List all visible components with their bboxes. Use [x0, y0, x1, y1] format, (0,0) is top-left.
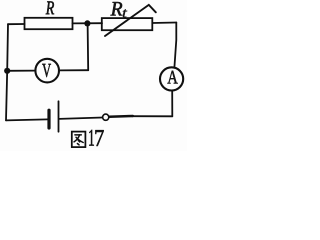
arrow of variable resistor Rt	[105, 5, 156, 36]
label R of resistor R1	[46, 2, 54, 15]
caption numeral 7	[95, 130, 103, 146]
resistor R1 (R) body	[25, 18, 73, 29]
caption character 图 drawn as strokes	[72, 132, 86, 148]
wire Rt to top-right corner	[152, 22, 176, 25]
wire ammeter to bottom-right corner	[171, 91, 173, 117]
node junction left	[4, 68, 10, 74]
wire R to Rt	[73, 22, 103, 24]
wire bottom right section	[133, 115, 173, 117]
wire top-left to R	[8, 23, 25, 25]
ammeter A1 circle	[160, 67, 183, 90]
label V of voltmeter	[42, 64, 51, 77]
node junction top	[84, 20, 90, 26]
resistor R2 (Rt) body	[102, 18, 153, 30]
wire left node to voltmeter	[7, 70, 35, 72]
label t subscript of Rt	[123, 9, 127, 17]
label Rt of resistor R2	[111, 2, 123, 15]
battery BT1 negative plate (short thick)	[47, 110, 50, 128]
switch S1 pivot circle	[103, 114, 109, 120]
wire voltmeter to vertical riser	[59, 69, 88, 71]
battery BT1 positive plate (long)	[58, 101, 60, 131]
wire battery to bottom-left corner	[6, 119, 47, 120]
switch S1 blade	[109, 115, 133, 118]
wire riser up to top node	[87, 23, 90, 70]
caption numeral 1	[89, 130, 94, 146]
wire left side vertical	[6, 24, 8, 120]
label A of ammeter	[167, 71, 177, 84]
wire switch to battery	[59, 118, 102, 119]
voltmeter V1 circle	[35, 59, 59, 83]
wire right side down to ammeter	[174, 23, 176, 68]
